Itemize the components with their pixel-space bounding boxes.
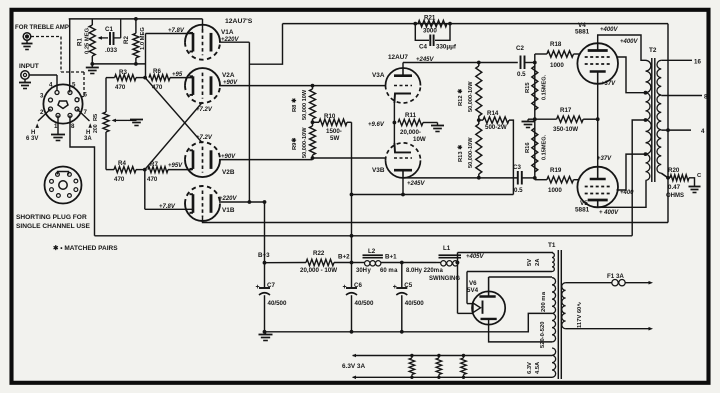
svg-text:R17: R17 [560,107,572,114]
svg-text:+: + [256,284,260,291]
svg-text:5881: 5881 [575,207,590,214]
svg-text:6: 6 [84,92,88,99]
svg-text:350-10W: 350-10W [553,126,578,133]
svg-text:40/500: 40/500 [268,300,287,307]
svg-text:8: 8 [704,94,708,101]
svg-text:+220V: +220V [219,196,238,202]
svg-text:V6: V6 [469,280,477,287]
svg-text:2A: 2A [535,258,541,266]
svg-text:5: 5 [72,82,76,89]
svg-text:20,000-: 20,000- [400,129,421,136]
svg-text:4: 4 [701,128,705,135]
svg-text:6.3V 3A: 6.3V 3A [342,363,365,370]
svg-text:FOR TREBLE AMP: FOR TREBLE AMP [15,24,69,31]
svg-text:R1: R1 [77,38,84,46]
svg-text:R21: R21 [424,15,436,22]
svg-text:5V4: 5V4 [467,287,479,294]
svg-text:4: 4 [49,82,53,89]
svg-text:6 3V: 6 3V [26,136,38,142]
svg-text:470: 470 [147,176,158,183]
svg-text:R4: R4 [118,160,126,167]
svg-text:T1: T1 [548,242,556,249]
svg-text:470: 470 [152,84,163,91]
svg-text:C6: C6 [354,282,362,289]
svg-text:200 m a: 200 m a [541,291,547,312]
svg-text:SWINGING: SWINGING [429,276,460,282]
svg-text:R5: R5 [93,114,99,121]
svg-text:1500-: 1500- [326,128,342,135]
svg-text:0.15MEG.: 0.15MEG. [542,74,548,100]
svg-text:R16: R16 [525,142,531,153]
svg-text:C7: C7 [267,282,275,289]
svg-text:40/500: 40/500 [405,300,424,307]
svg-text:470: 470 [114,176,125,183]
svg-text:R19: R19 [550,167,562,174]
svg-text:.033: .033 [105,47,118,54]
svg-text:+: + [393,284,397,291]
svg-text:5881: 5881 [575,29,590,36]
svg-text:T2: T2 [649,47,657,54]
svg-text:V1A: V1A [221,29,234,36]
svg-text:50,000 10W: 50,000 10W [302,89,308,120]
svg-text:+37V: +37V [601,81,616,87]
svg-text:117V 60∿: 117V 60∿ [577,302,583,328]
svg-text:C1: C1 [105,26,113,33]
svg-text:0.47: 0.47 [668,184,681,191]
svg-text:L1: L1 [443,245,451,252]
svg-text:+405V: +405V [466,254,485,260]
svg-text:8: 8 [71,123,75,130]
svg-text:L2: L2 [368,248,376,255]
svg-text:R12 ✱: R12 ✱ [457,89,464,106]
svg-text:470: 470 [115,84,126,91]
svg-text:+400V: +400V [620,39,639,45]
svg-text:1000: 1000 [548,187,562,194]
svg-text:6.3V: 6.3V [527,362,533,374]
svg-text:B+1: B+1 [385,254,397,261]
svg-text:3: 3 [40,93,44,100]
svg-text:R8 ✱: R8 ✱ [291,98,298,112]
svg-text:+7.8V: +7.8V [168,28,185,34]
svg-text:R11: R11 [405,112,417,119]
svg-text:R14: R14 [487,110,499,117]
svg-text:SHORTING PLUG FOR: SHORTING PLUG FOR [16,214,87,221]
svg-text:12AU7: 12AU7 [388,54,408,61]
svg-text:+9.6V: +9.6V [368,122,385,128]
svg-text:0.15MEG.: 0.15MEG. [542,134,548,160]
svg-text:5W: 5W [330,135,339,142]
svg-text:V2A: V2A [222,72,235,79]
svg-text:R3: R3 [119,69,127,76]
svg-text:INPUT: INPUT [19,63,39,70]
svg-text:12AU7'S: 12AU7'S [225,18,253,25]
svg-text:50,000-10W: 50,000-10W [468,81,474,112]
svg-text:5V: 5V [527,259,533,266]
svg-text:+400V: +400V [600,27,619,33]
svg-text:+245V: +245V [407,181,426,187]
svg-text:40/500: 40/500 [355,300,374,307]
svg-text:OHMS: OHMS [666,193,684,199]
svg-text:V3A: V3A [372,72,385,79]
svg-text:4.5A: 4.5A [535,361,541,374]
svg-text:30H y: 30H y [356,268,372,274]
svg-text:R6: R6 [153,68,161,75]
svg-text:0.5: 0.5 [517,71,526,78]
svg-text:✱ • MATCHED PAIRS: ✱ • MATCHED PAIRS [53,244,118,252]
svg-text:1000: 1000 [550,62,564,69]
svg-text:+: + [343,284,347,291]
svg-text:0.5: 0.5 [514,187,523,194]
svg-text:200: 200 [93,124,99,133]
svg-text:10W: 10W [413,136,426,143]
svg-text:V2B: V2B [222,169,235,176]
svg-text:C4: C4 [419,44,427,51]
svg-text:R9✱: R9✱ [291,138,298,150]
svg-text:3000: 3000 [423,28,437,35]
svg-text:V3B: V3B [372,167,385,174]
svg-text:R20: R20 [668,167,680,174]
svg-text:F1 3A: F1 3A [607,273,624,280]
svg-text:C2: C2 [516,45,524,52]
svg-text:B+3: B+3 [258,252,270,259]
svg-text:R2: R2 [123,36,130,44]
svg-text:R18: R18 [550,41,562,48]
svg-text:+7.2V: +7.2V [196,107,213,113]
svg-text:330μμf: 330μμf [436,44,457,51]
svg-text:B+2: B+2 [338,254,350,261]
svg-text:50,000-10W: 50,000-10W [468,137,474,168]
svg-text:520-0-520: 520-0-520 [540,322,546,348]
svg-text:+ 400V: + 400V [599,210,619,216]
svg-text:C5: C5 [404,282,412,289]
svg-text:C3: C3 [513,164,521,171]
svg-text:+95V: +95V [168,163,183,169]
svg-text:60 m a: 60 m a [380,268,398,274]
svg-text:R13 ✱: R13 ✱ [457,145,464,162]
svg-text:SINGLE CHANNEL USE: SINGLE CHANNEL USE [16,223,90,230]
svg-text:16: 16 [694,59,701,66]
svg-text:50,000-10W: 50,000-10W [302,127,308,158]
svg-text:3A: 3A [84,136,92,142]
svg-text:V1B: V1B [222,207,235,214]
svg-text:+37V: +37V [597,156,612,162]
svg-text:R15: R15 [525,82,531,93]
svg-text:R7: R7 [150,161,158,168]
svg-text:0.25 MEG.: 0.25 MEG. [85,26,91,54]
svg-text:R22: R22 [313,250,325,257]
svg-text:8.0Hy 220m a: 8.0Hy 220m a [406,268,444,274]
svg-text:20,000 - 10W: 20,000 - 10W [300,267,337,274]
svg-text:500-2W: 500-2W [485,124,507,131]
svg-text:R10: R10 [324,113,336,120]
